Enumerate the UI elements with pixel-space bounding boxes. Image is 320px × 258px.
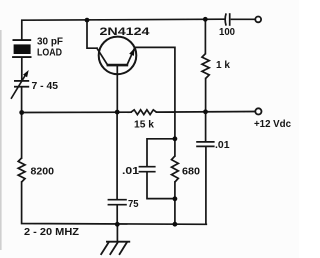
svg-text:15 k: 15 k — [134, 119, 154, 130]
svg-text:1 k: 1 k — [216, 60, 230, 71]
svg-text:8200: 8200 — [31, 165, 55, 177]
svg-text:30 pF: 30 pF — [37, 36, 63, 47]
svg-text:2 - 20 MHZ: 2 - 20 MHZ — [24, 227, 79, 238]
svg-text:2N4124: 2N4124 — [100, 26, 151, 38]
svg-text:.01: .01 — [215, 140, 230, 151]
svg-text:.01: .01 — [122, 166, 140, 177]
svg-text:7 - 45: 7 - 45 — [32, 81, 59, 92]
svg-text:+12 Vdc: +12 Vdc — [254, 119, 291, 130]
svg-text:100: 100 — [219, 27, 235, 38]
svg-text:LOAD: LOAD — [37, 48, 62, 59]
svg-text:680: 680 — [182, 165, 200, 177]
svg-text:75: 75 — [128, 199, 139, 210]
